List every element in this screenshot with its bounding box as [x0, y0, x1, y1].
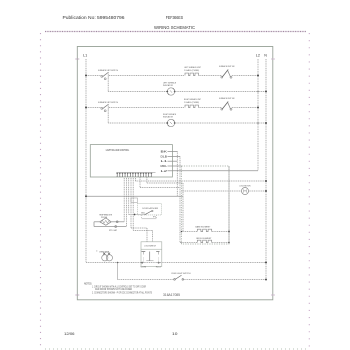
- svg-text:DLB: DLB: [161, 156, 168, 158]
- svg-text:PROBE: PROBE: [101, 217, 108, 219]
- svg-text:SURFACE UNIT SWITCH: SURFACE UNIT SWITCH: [98, 101, 118, 104]
- svg-text:NOTES:: NOTES:: [84, 281, 92, 285]
- svg-text:RIGHT SURFACE UNIT: RIGHT SURFACE UNIT: [184, 98, 201, 101]
- svg-text:TEMPERATURE: TEMPERATURE: [99, 213, 113, 216]
- svg-text:1. CIRCUIT SHOWN WITH ALL CON: 1. CIRCUIT SHOWN WITH ALL CONTROLS SET T…: [92, 285, 146, 288]
- svg-text:DOOR LATCH SW: DOOR LATCH SW: [142, 207, 158, 210]
- svg-text:SURFACE UNIT SW: SURFACE UNIT SW: [219, 65, 235, 68]
- svg-text:MDL: MDL: [161, 166, 168, 168]
- svg-text:BK: BK: [161, 151, 168, 153]
- svg-text:2. CONNECTORS SHOWN - P OF EO: 2. CONNECTORS SHOWN - P OF EOC CONNECTOR…: [92, 291, 152, 294]
- svg-text:FEF366ES: FEF366ES: [166, 15, 184, 20]
- svg-text:SURFACE UNIT SWITCH: SURFACE UNIT SWITCH: [98, 69, 118, 72]
- svg-text:Publication No: 5995480796: Publication No: 5995480796: [63, 15, 126, 20]
- svg-text:COM: COM: [141, 266, 147, 268]
- svg-text:10: 10: [172, 331, 178, 336]
- svg-text:BAKE ELEMENT: BAKE ELEMENT: [195, 226, 211, 229]
- svg-text:OVEN LAMP: OVEN LAMP: [99, 250, 109, 253]
- svg-text:L1: L1: [83, 53, 88, 58]
- svg-text:12/06: 12/06: [64, 331, 75, 336]
- svg-text:LIGHTING AND CONTROL: LIGHTING AND CONTROL: [106, 149, 130, 152]
- svg-text:LOCK MOTOR: LOCK MOTOR: [239, 185, 250, 187]
- svg-text:N: N: [264, 53, 267, 58]
- svg-text:RIGHT SURFACE: RIGHT SURFACE: [163, 113, 176, 116]
- svg-text:BROIL ELEMENT: BROIL ELEMENT: [196, 238, 212, 240]
- svg-text:L2: L2: [256, 53, 261, 58]
- svg-text:WIRING SCHEMATIC: WIRING SCHEMATIC: [154, 25, 195, 31]
- svg-text:OVEN LIGHT SWITCH: OVEN LIGHT SWITCH: [171, 273, 191, 275]
- svg-text:2 LEADS (2 WIRE): 2 LEADS (2 WIRE): [184, 101, 199, 104]
- svg-text:2 LEADS (2 WIRE): 2 LEADS (2 WIRE): [184, 69, 199, 72]
- svg-text:RTD CAP: RTD CAP: [109, 229, 118, 232]
- svg-text:N.O.: N.O.: [156, 266, 162, 268]
- svg-text:LEFT SURFACE UNIT: LEFT SURFACE UNIT: [184, 66, 202, 69]
- svg-text:LOCK SWITCH: LOCK SWITCH: [144, 246, 156, 248]
- svg-text:INDICATOR: INDICATOR: [163, 116, 173, 119]
- svg-text:LEFT SURFACE: LEFT SURFACE: [163, 82, 177, 85]
- svg-text:316A17085: 316A17085: [163, 293, 180, 297]
- svg-text:AND DOOR SHOWN NOT UNLOCKED: AND DOOR SHOWN NOT UNLOCKED: [95, 288, 132, 291]
- svg-text:SURFACE UNIT SW: SURFACE UNIT SW: [219, 97, 235, 100]
- svg-text:INDICATOR: INDICATOR: [163, 84, 173, 87]
